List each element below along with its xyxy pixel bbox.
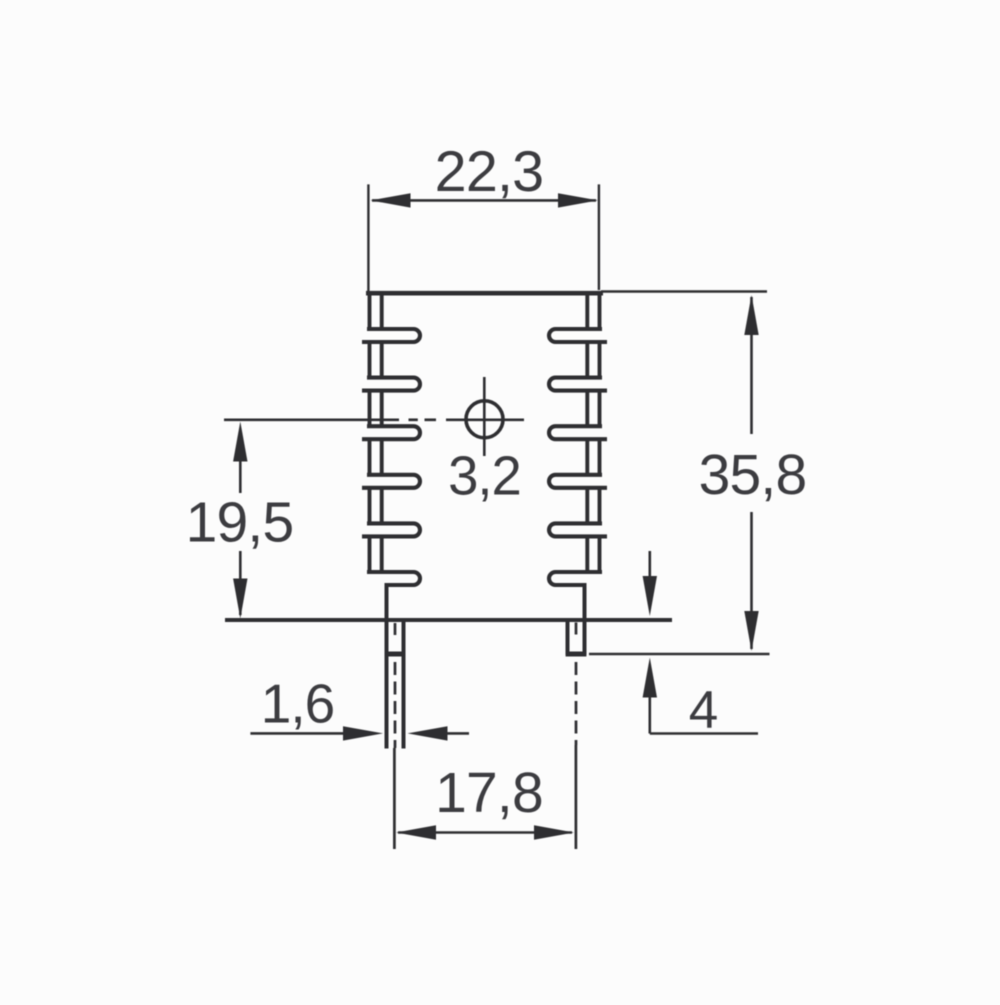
hole vertical center line <box>483 377 486 456</box>
dim 17,8 line + arrows <box>398 831 572 834</box>
mounting hole circle <box>466 401 503 438</box>
right pin outline <box>566 620 570 655</box>
right pin center line <box>575 623 578 635</box>
svg-text:22,3: 22,3 <box>435 140 544 204</box>
svg-text:35,8: 35,8 <box>699 443 807 507</box>
left inner lamella lines <box>585 295 589 330</box>
left outer wall segments <box>368 295 372 330</box>
heatsink top plate <box>366 291 603 296</box>
left fins (6 horizontal U-channels) <box>556 327 603 331</box>
dim 4 upper reference arrow <box>648 551 651 578</box>
dim 35,8 line + arrows <box>750 297 753 434</box>
hole horizontal center line <box>224 418 399 421</box>
svg-text:19,5: 19,5 <box>186 491 294 555</box>
left pin center line <box>394 623 397 635</box>
dim 19,5 line + arrows <box>233 422 247 462</box>
left lower descender to base <box>385 583 389 621</box>
right lower descender to base <box>583 583 587 621</box>
dim 35,8 top extension line <box>601 290 767 292</box>
svg-text:4: 4 <box>689 681 718 740</box>
left pin outline <box>385 620 389 749</box>
base bottom line (with extensions both sides) <box>225 618 672 622</box>
svg-text:1,6: 1,6 <box>261 673 334 735</box>
dim 22,3 extension lines <box>367 184 369 291</box>
svg-text:3,2: 3,2 <box>448 446 521 507</box>
svg-text:17,8: 17,8 <box>435 761 543 825</box>
dim 22,3 line + arrows <box>372 199 596 202</box>
dim 4 lower arrow + tail <box>643 658 657 698</box>
dim 1,6 leaders <box>250 732 346 735</box>
right fin bank (mirrored) <box>549 295 607 585</box>
left outer wall segments <box>598 295 602 330</box>
left fins (6 horizontal U-channels) <box>367 327 414 331</box>
left inner lamella lines <box>380 295 384 330</box>
dim 4 lower reference line <box>589 653 770 656</box>
left fin bank <box>362 295 420 585</box>
